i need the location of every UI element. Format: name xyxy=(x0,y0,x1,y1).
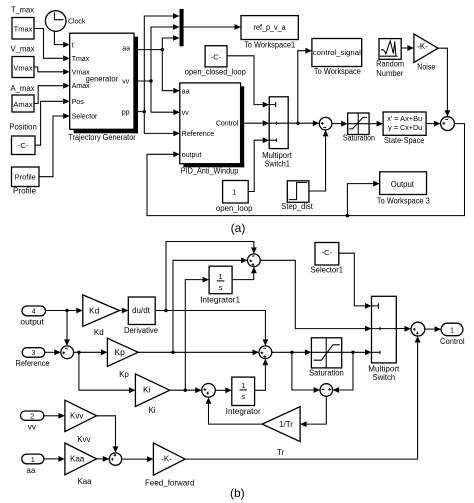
svg-text:Control: Control xyxy=(440,337,465,346)
svg-text:T_max: T_max xyxy=(11,6,34,15)
wire Vmax to Vmax port xyxy=(34,67,70,75)
svg-text:State-Space: State-Space xyxy=(384,136,425,145)
svg-text:-C-: -C- xyxy=(322,248,333,257)
constant block Position (-C-) xyxy=(9,123,37,155)
subsystem Trajectory Generator xyxy=(68,33,138,142)
wire vv output to Mux input 2 and PID vv port xyxy=(134,24,180,115)
svg-text:2: 2 xyxy=(30,414,34,421)
svg-text:Kd: Kd xyxy=(94,328,104,337)
wire Kaa to S_vvaa xyxy=(97,456,110,462)
svg-text:V_max: V_max xyxy=(11,45,35,54)
svg-text:Switch1: Switch1 xyxy=(265,159,291,168)
sum S_out (output sum) xyxy=(411,322,425,336)
wire port 1 to Kaa xyxy=(44,456,65,462)
feedback wire Sum2 to PID output port with tap to Output xyxy=(147,124,465,218)
wire Integrator1 to S_int1 bottom xyxy=(232,267,257,280)
wire Ki to integrator sum xyxy=(170,387,202,393)
outport 1 (Control) xyxy=(440,323,465,346)
svg-text:Saturation: Saturation xyxy=(309,368,344,377)
wire S_sat to Saturation with anti-windup tap down to difference sum xyxy=(272,349,320,393)
wire port 2 to Kvv xyxy=(44,413,65,419)
integrator block Integrator1 xyxy=(200,266,240,304)
wire Kp to pre-saturation sum with branch up to S_int1 xyxy=(138,257,259,355)
svg-text:1: 1 xyxy=(219,272,223,281)
svg-text:du/dt: du/dt xyxy=(132,306,151,315)
svg-text:1: 1 xyxy=(241,381,245,390)
wire Tmax to Trajectory Generator Tmax port xyxy=(34,29,70,62)
wire Multiport Switch to output sum xyxy=(396,326,411,332)
svg-text:To Workspace: To Workspace xyxy=(314,67,362,76)
svg-text:Ki: Ki xyxy=(143,385,151,395)
constant block Vmax (label V_max) xyxy=(11,45,35,78)
wire Sum1 to Saturation xyxy=(332,121,348,127)
svg-text:Kaa: Kaa xyxy=(77,477,92,486)
multiport switch Multiport Switch (b) xyxy=(368,296,400,382)
svg-text:Number: Number xyxy=(376,69,403,78)
svg-text:Reference: Reference xyxy=(182,131,214,138)
svg-text:(b): (b) xyxy=(230,486,245,500)
svg-text:Kd: Kd xyxy=(89,305,100,315)
svg-text:Amax: Amax xyxy=(72,83,90,90)
sum S_vvaa (feedforward sum) xyxy=(109,453,121,465)
svg-text:Multiport: Multiport xyxy=(368,364,400,373)
integrator block Integrator xyxy=(226,377,261,416)
wire Integrator to pre-saturation sum bottom xyxy=(255,359,269,391)
svg-text:Vmax: Vmax xyxy=(13,64,32,73)
constant block open_closed_loop (-C-) xyxy=(185,46,247,77)
inport 1 (aa) xyxy=(22,454,44,475)
wire Clock to t port xyxy=(54,31,69,47)
svg-text:Amax: Amax xyxy=(13,100,32,109)
wire Random Number to Noise xyxy=(401,45,414,51)
svg-text:4: 4 xyxy=(32,309,36,316)
step source Step_dist xyxy=(281,181,313,211)
svg-text:Ki: Ki xyxy=(148,406,155,415)
wire S_err to Kp with branch down to Ki xyxy=(74,349,136,393)
svg-text:PID_Anti_Windup: PID_Anti_Windup xyxy=(181,166,239,175)
svg-text:ref_p_v_a: ref_p_v_a xyxy=(254,23,286,32)
wire Selector1 to Multiport Switch select input xyxy=(339,253,372,309)
svg-text:-K-: -K- xyxy=(161,455,172,464)
svg-text:aa: aa xyxy=(27,466,36,475)
svg-text:t: t xyxy=(72,42,74,49)
svg-text:To Workspace1: To Workspace1 xyxy=(244,41,295,50)
to-workspace block control_signal xyxy=(312,39,362,77)
svg-text:A_max: A_max xyxy=(11,84,35,93)
svg-text:Tmax: Tmax xyxy=(14,24,33,33)
sum Sum1 xyxy=(319,117,332,130)
svg-text:Saturation: Saturation xyxy=(343,134,375,143)
gain Kaa xyxy=(65,443,97,486)
svg-text:s: s xyxy=(219,283,223,292)
svg-text:Output: Output xyxy=(391,180,415,189)
gain 1/Tr (anti-windup gain, points left) xyxy=(262,407,300,457)
to-workspace block Output xyxy=(377,172,430,206)
wire Step_dist to Sum1 bottom xyxy=(309,130,329,191)
to-workspace block ref_p_v_a xyxy=(241,16,298,50)
svg-text:Step_dist: Step_dist xyxy=(281,202,313,211)
svg-text:To Workspace 3: To Workspace 3 xyxy=(377,197,430,206)
svg-text:1: 1 xyxy=(232,187,236,196)
wire Profile to Selector port xyxy=(39,113,70,177)
svg-text:open_loop: open_loop xyxy=(216,204,253,213)
inport 2 (vv) xyxy=(21,411,44,431)
svg-text:vv: vv xyxy=(182,110,190,117)
gain Kp xyxy=(107,338,138,379)
svg-text:Kaa: Kaa xyxy=(70,455,85,464)
constant block open_loop (value 1) xyxy=(216,181,253,213)
svg-text:Control: Control xyxy=(216,120,239,127)
gain Kd xyxy=(83,295,120,337)
wire aa output to Mux input 3 and PID aa port xyxy=(134,35,180,94)
inport 4 (output) xyxy=(20,306,45,326)
svg-text:control_signal: control_signal xyxy=(313,48,361,57)
svg-text:Kvv: Kvv xyxy=(77,435,90,444)
svg-text:Trajectory Generator: Trajectory Generator xyxy=(68,133,136,142)
svg-text:aa: aa xyxy=(122,45,130,52)
gain Noise (-K-) xyxy=(414,34,438,71)
svg-text:output: output xyxy=(182,152,202,159)
svg-text:Profile: Profile xyxy=(15,173,36,182)
svg-text:Position: Position xyxy=(9,123,37,132)
saturation block Saturation (b) xyxy=(309,338,344,378)
sum S_sat (pre-saturation sum) xyxy=(259,346,272,359)
constant block Amax (label A_max) xyxy=(11,84,35,112)
svg-text:aa: aa xyxy=(182,88,190,95)
svg-text:vv: vv xyxy=(28,422,36,431)
svg-text:Kp: Kp xyxy=(115,347,126,357)
sum S_int2 (integrator input sum) xyxy=(202,384,216,398)
gain Feed_forward (-K-) xyxy=(145,443,194,488)
svg-text:Kvv: Kvv xyxy=(70,412,83,421)
svg-text:open_closed_loop: open_closed_loop xyxy=(185,68,247,77)
svg-text:x' = Ax+Bu: x' = Ax+Bu xyxy=(387,116,422,123)
wire Control output to Multiport Switch1 input 2 xyxy=(244,120,269,126)
wire Noise to Sum2 top xyxy=(438,48,450,117)
multiport switch Multiport Switch1 xyxy=(262,97,292,169)
sum S_int1 (derivative and integrator sum) xyxy=(248,254,261,267)
wire port 3 to error sum xyxy=(45,349,61,355)
svg-text:1: 1 xyxy=(31,457,35,464)
svg-text:Tmax: Tmax xyxy=(72,56,90,63)
wire port 4 to Kd with branch down to error sum xyxy=(46,308,83,346)
sum Sum2 xyxy=(441,117,455,131)
svg-text:Integrator: Integrator xyxy=(226,407,261,416)
svg-text:Reference: Reference xyxy=(16,359,50,368)
wire Derivative output to S_int1 top and pre-saturation sum top xyxy=(155,242,269,346)
constant block Tmax (label T_max) xyxy=(11,6,34,39)
state-space block State-Space xyxy=(383,112,426,145)
wire S_out to Control outport xyxy=(425,326,441,332)
wire 1/Tr to integrator sum bottom xyxy=(206,397,263,424)
gain Ki xyxy=(135,374,169,415)
svg-text:Profile: Profile xyxy=(13,187,37,196)
wire open_closed_loop to Multiport Switch1 select input xyxy=(227,56,269,108)
sum S_err (error sum) xyxy=(61,346,74,359)
svg-text:vv: vv xyxy=(122,78,130,85)
svg-text:generator: generator xyxy=(86,74,119,83)
svg-text:Selector1: Selector1 xyxy=(311,266,344,275)
saturation block Saturation xyxy=(343,113,375,143)
wire Amax to Amax port xyxy=(34,83,70,104)
svg-text:Random: Random xyxy=(376,59,404,68)
wire Mux to ref_p_v_a xyxy=(184,24,241,30)
wire open_loop to Multiport Switch1 input 3 xyxy=(248,137,269,191)
svg-text:(a): (a) xyxy=(231,221,246,235)
svg-text:Kp: Kp xyxy=(119,370,129,379)
svg-text:Derivative: Derivative xyxy=(124,326,159,335)
source block Profile xyxy=(12,167,40,196)
svg-text:-K-: -K- xyxy=(417,42,428,51)
wire Saturation to Multiport Switch input 3 with tap down to difference sum xyxy=(333,349,372,393)
sum S_diff (saturation difference sum) xyxy=(320,384,333,397)
svg-text:1/Tr: 1/Tr xyxy=(279,420,293,429)
svg-text:output: output xyxy=(20,317,44,326)
svg-text:Feed_forward: Feed_forward xyxy=(145,479,194,488)
svg-text:-C-: -C- xyxy=(211,53,222,62)
wire S_vvaa to Feed_forward xyxy=(122,456,154,462)
wire from Ki line junction up to Integrator1 input xyxy=(184,277,210,392)
wire Kd to Derivative xyxy=(120,308,129,314)
wire S_int1 to Multiport Switch input 2 xyxy=(260,260,371,331)
svg-text:y = Cx+Du: y = Cx+Du xyxy=(388,125,422,132)
wire S_diff down to gain 1/Tr xyxy=(300,396,326,427)
svg-text:s: s xyxy=(241,392,245,401)
wire pp output to Mux input 1 and PID Reference port xyxy=(134,13,180,136)
clock source Clock xyxy=(45,11,85,32)
svg-text:Selector: Selector xyxy=(72,114,98,121)
wire Feed_forward to output sum bottom xyxy=(185,336,421,459)
wire State-Space to Sum2 xyxy=(426,121,441,127)
svg-text:pp: pp xyxy=(122,109,130,116)
svg-text:-C-: -C- xyxy=(18,141,29,150)
svg-text:Tr: Tr xyxy=(277,448,285,457)
random source Random Number xyxy=(376,39,404,78)
svg-text:3: 3 xyxy=(32,350,36,357)
subsystem PID_Anti_Windup xyxy=(180,83,244,175)
wire Kvv to S_vvaa top xyxy=(97,416,119,453)
gain Kvv xyxy=(65,400,97,444)
wire Position to Pos port xyxy=(35,98,70,145)
svg-text:Switch: Switch xyxy=(373,373,396,382)
mux Mux xyxy=(180,9,184,46)
svg-text:Pos: Pos xyxy=(72,99,85,106)
svg-text:Noise: Noise xyxy=(417,62,435,71)
wire Multiport Switch1 to Sum1 with tap up to control_signal xyxy=(288,48,319,126)
svg-text:Clock: Clock xyxy=(68,16,86,25)
wire Saturation to State-Space xyxy=(369,121,383,127)
svg-text:1: 1 xyxy=(450,325,454,334)
svg-text:Integrator1: Integrator1 xyxy=(200,296,240,305)
derivative block du/dt xyxy=(124,297,159,335)
wire S_int2 to Integrator xyxy=(215,387,232,393)
constant block Selector1 (-C-) xyxy=(311,243,344,275)
inport 3 (Reference) xyxy=(16,348,50,368)
